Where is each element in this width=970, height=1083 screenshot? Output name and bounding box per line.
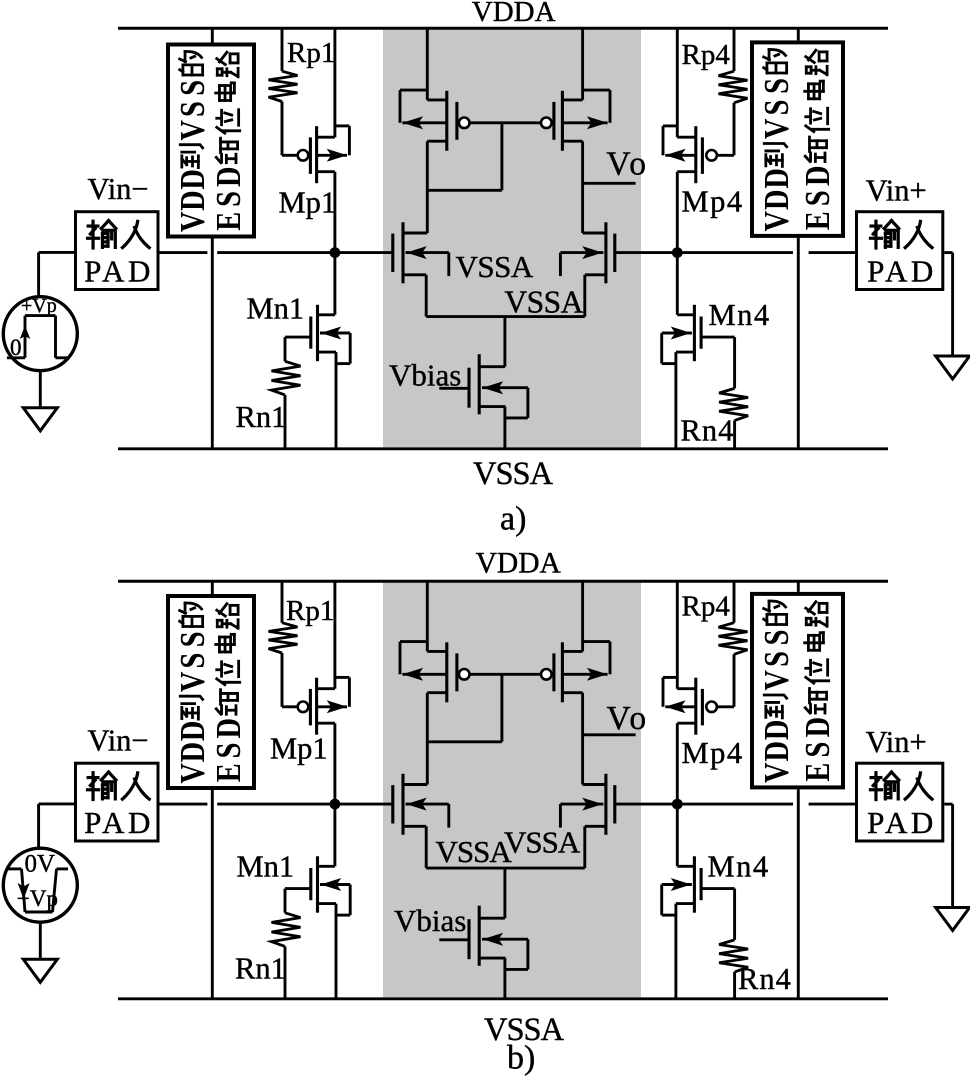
- svg-text:V: V: [173, 212, 211, 233]
- svg-text:Vin+: Vin+: [866, 725, 927, 759]
- svg-text:V: V: [757, 762, 795, 783]
- svg-text:0: 0: [10, 335, 22, 360]
- svg-text:E: E: [798, 763, 836, 782]
- svg-text:PAD: PAD: [867, 805, 937, 840]
- svg-text:Vin−: Vin−: [88, 172, 149, 206]
- svg-text:V: V: [757, 670, 795, 691]
- svg-text:Rn4: Rn4: [681, 414, 735, 448]
- svg-text:E: E: [798, 211, 836, 230]
- svg-text:V: V: [173, 120, 211, 141]
- svg-text:Rp1: Rp1: [286, 595, 334, 627]
- svg-text:Mp4: Mp4: [682, 736, 744, 770]
- svg-text:Mp4: Mp4: [682, 185, 744, 219]
- svg-text:Vo: Vo: [607, 700, 650, 737]
- svg-text:Vin−: Vin−: [88, 724, 149, 758]
- svg-text:S: S: [209, 743, 247, 759]
- svg-text:S: S: [757, 100, 795, 116]
- svg-text:VDDA: VDDA: [472, 0, 556, 28]
- svg-text:Mn4: Mn4: [708, 850, 770, 884]
- svg-text:D: D: [757, 168, 795, 189]
- svg-text:D: D: [209, 718, 247, 739]
- svg-text:Vin+: Vin+: [866, 174, 927, 208]
- svg-text:VSSA: VSSA: [473, 456, 554, 492]
- svg-text:D: D: [173, 721, 211, 742]
- svg-text:S: S: [173, 80, 211, 96]
- svg-text:Vbias: Vbias: [389, 358, 461, 393]
- svg-text:Rp1: Rp1: [287, 37, 335, 69]
- svg-text:b): b): [507, 1040, 535, 1077]
- svg-text:Rn1: Rn1: [235, 952, 286, 986]
- svg-text:E: E: [209, 212, 247, 231]
- svg-text:V: V: [757, 211, 795, 232]
- svg-text:Mp1: Mp1: [270, 732, 328, 766]
- svg-text:S: S: [798, 190, 836, 206]
- svg-text:V: V: [173, 672, 211, 693]
- svg-text:S: S: [173, 101, 211, 117]
- svg-text:Mp1: Mp1: [279, 186, 337, 220]
- svg-text:−Vp: −Vp: [17, 886, 58, 911]
- svg-text:a): a): [500, 501, 526, 538]
- svg-text:Rp4: Rp4: [682, 591, 731, 623]
- svg-text:VSSA: VSSA: [504, 285, 583, 320]
- svg-text:PAD: PAD: [84, 254, 154, 289]
- svg-text:Rn4: Rn4: [738, 962, 792, 996]
- svg-text:D: D: [757, 720, 795, 741]
- svg-text:D: D: [209, 166, 247, 187]
- svg-text:PAD: PAD: [867, 254, 937, 289]
- svg-text:V: V: [173, 763, 211, 784]
- svg-text:D: D: [173, 742, 211, 763]
- svg-text:Rp4: Rp4: [682, 39, 731, 71]
- svg-text:Rn1: Rn1: [236, 400, 287, 434]
- svg-text:D: D: [757, 741, 795, 762]
- svg-text:Vbias: Vbias: [394, 903, 466, 938]
- svg-text:VSSA: VSSA: [456, 249, 534, 284]
- svg-text:VSSA: VSSA: [436, 834, 513, 869]
- svg-text:S: S: [757, 630, 795, 646]
- svg-text:S: S: [173, 631, 211, 647]
- svg-text:0V: 0V: [25, 851, 56, 878]
- svg-text:Mn1: Mn1: [237, 850, 295, 884]
- svg-text:E: E: [209, 763, 247, 782]
- svg-text:D: D: [173, 190, 211, 211]
- svg-text:PAD: PAD: [84, 805, 154, 840]
- svg-text:Mn1: Mn1: [247, 292, 305, 326]
- svg-text:S: S: [757, 651, 795, 667]
- svg-text:VDDA: VDDA: [476, 547, 562, 579]
- svg-text:S: S: [798, 742, 836, 758]
- svg-text:D: D: [798, 165, 836, 186]
- svg-text:Mn4: Mn4: [709, 298, 771, 332]
- svg-text:Vo: Vo: [606, 146, 649, 183]
- svg-text:D: D: [757, 189, 795, 210]
- svg-text:VSSA: VSSA: [504, 825, 581, 860]
- svg-text:S: S: [173, 653, 211, 669]
- svg-text:S: S: [757, 78, 795, 94]
- svg-text:D: D: [173, 169, 211, 190]
- svg-text:V: V: [757, 119, 795, 140]
- svg-text:S: S: [209, 191, 247, 207]
- svg-text:D: D: [798, 717, 836, 738]
- svg-text:+Vp: +Vp: [21, 295, 57, 317]
